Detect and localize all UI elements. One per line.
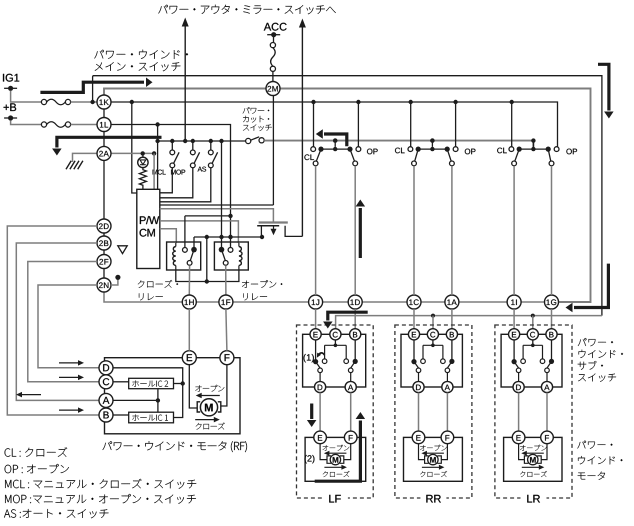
wire 2N to D: [38, 285, 99, 368]
RR pin E: [408, 329, 419, 340]
label LR open: [520, 445, 525, 450]
flow arrow IG1: [40, 82, 144, 92]
LR close arrow: [522, 466, 540, 468]
wire relay NC tie: [185, 215, 231, 217]
connector 2F: [97, 255, 111, 269]
ground: [66, 161, 71, 170]
wire coil ground bus: [176, 270, 239, 282]
wire LF D to motor E: [319, 393, 321, 431]
fuse F2 (+B): [41, 122, 46, 127]
label RR: [420, 492, 446, 504]
connector pin B: [99, 408, 113, 422]
hall IC 1 box: [129, 412, 174, 423]
junction gbus RR: [430, 138, 434, 142]
open relay output contact: [223, 261, 228, 266]
wire 1G-B drop: [551, 309, 553, 329]
wire power-cut output gray bus: [264, 141, 533, 150]
wire 1D column: [354, 166, 356, 295]
LF pin C: [330, 329, 341, 340]
LR sub-switch box: [501, 334, 562, 387]
motor M (RR): [428, 454, 438, 464]
LR pin E: [508, 329, 519, 340]
wire C riser LR: [532, 316, 534, 329]
label open relay: [242, 281, 249, 288]
junction A node: [156, 398, 160, 402]
LF switch blades: [316, 362, 321, 368]
RR motor box: [404, 437, 463, 481]
wire AS return: [160, 168, 211, 202]
wire B to hall IC1: [113, 414, 129, 416]
wire 2M gray bus: [104, 89, 591, 303]
wire CL1 riser: [313, 102, 315, 147]
LF motor box: [305, 437, 366, 481]
wire 1J column: [315, 166, 317, 295]
connector pin E: [182, 351, 196, 365]
wire mirror feed 1 with arrow: [184, 26, 186, 141]
legend MCL: [5, 480, 11, 488]
label OP2: [465, 149, 470, 155]
wire close relay NC riser: [184, 216, 186, 248]
label OP1: [367, 149, 372, 155]
label (2): [305, 455, 307, 463]
flow arrow C: [59, 376, 79, 378]
connector 1C: [407, 295, 421, 309]
LF close arrow: [324, 466, 342, 468]
junction C feed RR: [431, 314, 435, 318]
wire 2M to module: [272, 96, 274, 206]
label close dir: [196, 423, 202, 429]
connector 2M: [266, 82, 280, 96]
connector 2D: [97, 219, 111, 233]
motor M (LR): [528, 454, 538, 464]
flow arrow B: [59, 409, 79, 411]
junction source bus / coil return: [205, 235, 209, 239]
wire LF B contact: [354, 340, 356, 360]
LF pin B: [350, 329, 361, 340]
wire fuse to 1L: [71, 124, 97, 126]
label ACC: [264, 23, 271, 31]
connector 1L: [97, 118, 111, 132]
hall IC 2 box: [129, 378, 174, 388]
wire close-relay coil drive: [160, 229, 177, 243]
wire 1A column: [451, 166, 453, 295]
wire LF E contact: [315, 340, 317, 360]
connector 2B: [97, 236, 111, 250]
open relay blade: [222, 250, 226, 261]
wire LED top: [142, 153, 144, 157]
wire hall IC2 out: [174, 383, 183, 385]
LR pin B: [546, 329, 557, 340]
wire RR B contact: [451, 340, 453, 360]
flow arrow LF down: [310, 404, 313, 420]
RR dashed enclosure: [395, 325, 472, 498]
label hall IC 1: [132, 414, 138, 420]
flow arrow LF up: [315, 421, 361, 482]
open arrow marker at 2B: [118, 246, 127, 254]
flow arrow 1D up: [359, 208, 362, 258]
wire RR motor leads: [419, 444, 425, 460]
LF dashed enclosure: [297, 325, 374, 498]
wire 1H to E: [188, 309, 190, 351]
label to power outer mirror switch: [158, 5, 167, 13]
wire CL2 riser: [410, 102, 412, 147]
LR motor pin F: [541, 431, 554, 444]
label MCL: [153, 170, 158, 175]
wire 1D-B drop: [354, 309, 356, 329]
wire MOP return: [160, 168, 193, 198]
junction 2A/module-gnd: [152, 151, 156, 155]
label P/W CM: [140, 216, 146, 224]
motor M (LF): [330, 454, 340, 464]
wire ACC to fuse: [273, 37, 275, 43]
label open dir: [195, 385, 201, 391]
wire LF A to motor F: [350, 393, 352, 431]
label CL3: [497, 148, 502, 154]
wire sub-switch C feed bus: [336, 316, 602, 329]
wire 1A-B drop: [451, 309, 453, 329]
junction coil bus: [205, 279, 209, 283]
junction FET source: [260, 235, 264, 239]
junction 2A/LED: [141, 151, 145, 155]
RR open arrow: [426, 452, 444, 454]
junction 1K bus / CL2: [409, 100, 413, 104]
P/W motor RF box: [105, 358, 241, 434]
wire CL3 riser: [511, 102, 513, 147]
label LR close: [520, 471, 525, 477]
wire 2F to C: [28, 262, 99, 382]
wire source to coil bus: [206, 237, 208, 282]
LF sub-switch box: [303, 334, 366, 387]
RR motor pin E: [412, 431, 425, 444]
P/W CM module box: [137, 189, 160, 268]
LR motor box: [504, 437, 562, 481]
junction supply bus / open relay: [219, 139, 223, 143]
wire LR B contact: [551, 340, 553, 360]
wire LR motor leads: [519, 444, 525, 460]
node +B label: [4, 105, 9, 110]
junction supply/module: [155, 139, 159, 143]
label LR: [521, 492, 547, 504]
wire LR A to motor F: [546, 393, 548, 431]
junction 1K bus / OP1: [356, 100, 360, 104]
wire F to motor: [221, 365, 227, 406]
wire 1C-E drop: [413, 309, 415, 329]
wire module gnd pin: [153, 153, 155, 189]
junction 1K bus / OP2: [453, 100, 457, 104]
label RR close: [420, 471, 425, 477]
wire 2D to B: [7, 226, 99, 415]
junction supply bus / MCL: [170, 139, 174, 143]
label P/W motor: [577, 441, 586, 449]
label LF: [322, 492, 348, 504]
open relay NC contact: [228, 248, 233, 253]
wire 1I column: [513, 166, 515, 295]
connector 1D: [348, 295, 362, 309]
junction 1L col / source bus: [228, 235, 232, 239]
junction hall IC2/D: [181, 381, 185, 385]
label LF close: [323, 471, 328, 477]
label LF open: [323, 445, 328, 450]
junction gbus LF: [333, 138, 337, 142]
label power cut switch: [243, 107, 250, 113]
label close relay: [138, 280, 144, 287]
junction IG1/ACC-bus: [90, 100, 94, 104]
wire LF motor leads: [320, 444, 327, 460]
2N stub terminal: [111, 279, 118, 285]
flow arrow CL1: [324, 134, 347, 146]
wire 1F to F: [226, 309, 227, 351]
rocker switch RR: [430, 138, 434, 142]
wire 2A to module: [111, 152, 154, 154]
open dir arrow: [201, 395, 220, 397]
wire 2A to ground: [73, 153, 98, 162]
flow arrow right top: [598, 64, 609, 110]
connector pin A: [99, 393, 113, 407]
LR motor pin E: [512, 431, 525, 444]
LR pin D: [513, 381, 524, 392]
connector pin F: [220, 351, 234, 365]
flow arrow A: [21, 394, 41, 396]
wire E to motor: [189, 365, 197, 408]
wire mirror feed 2 with arrow: [301, 27, 303, 236]
flow arrow right bottom: [574, 264, 608, 308]
wire LF C split: [334, 340, 336, 345]
LF pin E: [310, 329, 321, 340]
wire 1K bus: [111, 102, 558, 147]
RR pin C: [427, 329, 438, 340]
wire +B to fuse: [11, 121, 42, 125]
flow arrow into LF: [328, 312, 368, 320]
wire RR A to motor F: [446, 393, 448, 431]
connector 1I: [507, 295, 521, 309]
wire close relay to 1H: [188, 265, 190, 295]
legend OP: [5, 465, 11, 473]
legend AS: [4, 509, 10, 517]
fuse F3 (ACC): [270, 43, 275, 48]
RR motor pin F: [441, 431, 454, 444]
connector 1J: [309, 295, 323, 309]
junction NC tie / 1L: [228, 214, 232, 218]
wire IG1 to fuse: [11, 91, 42, 102]
wire connector row: [104, 292, 545, 302]
legend CL: [5, 448, 11, 456]
wire open relay to 1F: [225, 265, 227, 295]
wire left column: [103, 102, 105, 285]
connector 2N: [97, 278, 111, 292]
close relay common contact: [191, 247, 197, 253]
terminal ACC: [267, 34, 280, 36]
wire module B+ column: [132, 102, 137, 193]
junction source bus / 1L line: [228, 235, 232, 239]
transistor Q1 (P/W motor FET): [259, 221, 288, 223]
label CL1: [304, 154, 309, 160]
wire 1G column: [551, 166, 553, 295]
label RR open: [420, 445, 425, 450]
wire LR C split: [532, 340, 534, 345]
node IG1 label: [3, 74, 4, 82]
label CL2: [395, 148, 400, 154]
motor M (RF): [200, 399, 217, 416]
wire fuse to 2M: [272, 71, 274, 81]
wire MCL return: [160, 168, 173, 193]
flow arrow ground: [57, 137, 162, 147]
flow arrow D: [59, 362, 79, 364]
LF motor pin F: [344, 431, 357, 444]
wire D to hall ICs: [113, 368, 183, 418]
connector 1H: [182, 295, 196, 309]
terminal +B: [4, 117, 17, 119]
wire A to hall ICs: [113, 399, 158, 401]
RR pin D: [413, 381, 424, 392]
connector 1K: [97, 95, 111, 109]
wire hall center: [157, 389, 159, 413]
fuse F1 (IG1): [41, 99, 46, 104]
connector pin D: [99, 361, 113, 375]
RR switch blades: [414, 362, 419, 368]
wire open-relay coil drive: [160, 221, 239, 243]
wire C to hall IC2: [113, 381, 129, 383]
junction 1K bus / CL3: [510, 100, 514, 104]
switch MOP: [192, 141, 194, 150]
wire switch supply bus: [158, 140, 246, 142]
LR pin A: [541, 381, 552, 392]
rocker switch LF: [333, 138, 337, 142]
junction 1K bus / CL1: [311, 100, 315, 104]
LF pin D: [315, 381, 326, 392]
close dir arrow: [195, 419, 215, 421]
junction 1K bus / B+ module: [130, 100, 134, 104]
close relay box: [167, 242, 201, 270]
wire RR E contact: [413, 340, 415, 360]
connector pin C: [99, 375, 113, 389]
terminal IG1: [4, 87, 17, 89]
close relay NC contact: [183, 248, 188, 253]
label MOP: [171, 170, 176, 175]
LR dashed enclosure: [495, 325, 572, 498]
label hall IC 2: [132, 380, 138, 386]
wire C riser RR: [432, 316, 434, 329]
LF motor pin E: [314, 431, 327, 444]
wire RR C split: [432, 340, 434, 345]
RR close arrow: [422, 466, 440, 468]
wire open relay common: [221, 141, 223, 248]
label AS: [198, 167, 203, 172]
wire OP2 riser: [455, 102, 457, 147]
wire module +B column: [157, 125, 159, 190]
connector 1A: [445, 295, 459, 309]
label (1): [304, 354, 306, 362]
close relay coil: [173, 247, 176, 266]
junction C feed LR: [531, 314, 535, 318]
wire LR D to motor E: [518, 393, 520, 431]
junction 1L bus / module: [155, 122, 159, 126]
wire 1L bus: [111, 125, 231, 248]
auto-switch arc (1): [318, 353, 325, 356]
connector 2A: [97, 146, 111, 160]
wire 1J-E drop: [315, 309, 317, 329]
wire OP1 riser: [357, 102, 359, 147]
open relay box: [214, 242, 248, 270]
LR pin C: [527, 329, 538, 340]
junction source bus / open relay common: [219, 235, 223, 239]
wire ACC bus riser: [93, 76, 602, 316]
switch MCL: [171, 141, 173, 150]
wire RR D to motor E: [418, 393, 420, 431]
switch AS: [210, 141, 212, 150]
switch power-cut: [246, 138, 251, 143]
open relay coil: [239, 247, 242, 266]
open relay common contact: [219, 247, 225, 253]
junction supply bus / MOP: [191, 139, 195, 143]
LED indicator: [138, 157, 148, 167]
label P/W main switch: [94, 50, 103, 58]
connector 1F: [219, 295, 233, 309]
RR pin A: [442, 381, 453, 392]
label P/W motor RF: [103, 441, 112, 449]
RR sub-switch box: [401, 334, 462, 387]
wire LR E contact: [513, 340, 515, 360]
wire close relay common drop: [193, 237, 195, 248]
wire ACC input: [160, 204, 274, 206]
LF open arrow: [328, 452, 346, 454]
wire 1C column: [413, 166, 415, 295]
junction supply bus / mirror feed: [183, 139, 187, 143]
wire fuse to 1K: [71, 101, 97, 103]
resistor R1: [139, 168, 146, 190]
wire 1I-E drop: [513, 309, 515, 329]
close relay output contact: [187, 261, 192, 266]
wire 2B to A: [16, 243, 99, 400]
junction supply bus / AS: [209, 139, 213, 143]
LR open arrow: [526, 452, 544, 454]
rocker switch LR: [531, 138, 535, 142]
label P/W sub switch: [578, 338, 587, 346]
LF pin A: [345, 381, 356, 392]
wire gate output: [160, 209, 274, 223]
RR pin B: [446, 329, 457, 340]
label OP3: [566, 149, 571, 155]
LR switch blades: [514, 362, 519, 368]
connector 1G: [545, 295, 559, 309]
wire FET source bus: [194, 236, 262, 238]
legend MOP: [5, 495, 11, 503]
close relay blade: [190, 250, 194, 261]
